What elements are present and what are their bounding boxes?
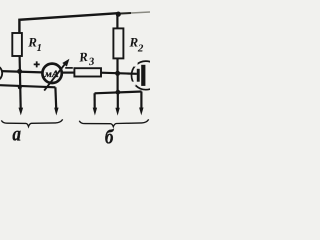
brace a [1, 119, 62, 126]
wire top rail left [1, 71, 42, 72]
resistor R3 [74, 68, 101, 76]
label R2 [129, 35, 144, 55]
arrow b1 shaft [93, 93, 95, 108]
arrow a2 head [54, 108, 58, 116]
wire junction down feed [116, 73, 118, 92]
photocell lamp circle clipped at right edge [132, 61, 161, 90]
node dot mid junction [115, 71, 120, 76]
photocell electrode right plate [141, 65, 145, 86]
wire R2 bottom lead [116, 58, 118, 73]
resistor R1 [12, 33, 22, 56]
wire bottom rail left [0, 85, 55, 87]
svg-text:1: 1 [37, 43, 42, 54]
arrow b3 shaft [140, 92, 142, 109]
meter needle shaft [44, 64, 65, 91]
arrow b2 head [115, 108, 119, 116]
svg-text:R: R [78, 49, 89, 65]
arrow b3 head [139, 108, 143, 116]
wire R2 top lead [116, 13, 118, 28]
node dot R1/top-rail [17, 69, 22, 74]
resistor R2 [113, 28, 123, 58]
svg-text:а: а [12, 124, 21, 146]
node dot bar junction [116, 90, 121, 95]
photocell outline gap upper-left [134, 63, 138, 67]
wire arrow a2 shaft [54, 87, 57, 108]
minus sign [65, 67, 73, 69]
wire R1 bottom to arrow a1 [20, 56, 21, 109]
node dot R1/bottom-rail [18, 85, 22, 89]
meter needle head [62, 59, 69, 67]
arrow b1 head [93, 108, 97, 116]
brace b [79, 119, 148, 126]
wire R3 to photocell [101, 73, 137, 74]
milliammeter U1 circle [42, 64, 61, 83]
svg-text:2: 2 [137, 43, 144, 55]
plus sign [34, 61, 40, 67]
arrow a1 head [19, 108, 24, 116]
wire meter to R3 [62, 71, 75, 73]
wire distribution bar b [95, 92, 142, 94]
arrow b2 shaft [117, 92, 119, 108]
photocell outline gap lower-left [132, 82, 136, 86]
node dot top junction [116, 12, 121, 17]
wire top bus faded right end [118, 12, 131, 15]
label R3 [78, 48, 96, 69]
svg-text:б: б [105, 127, 114, 149]
photocell electrode left plate [137, 69, 140, 82]
wire top bus [19, 13, 118, 33]
label R1 [27, 34, 42, 54]
source circle clipped at left edge [0, 65, 2, 81]
